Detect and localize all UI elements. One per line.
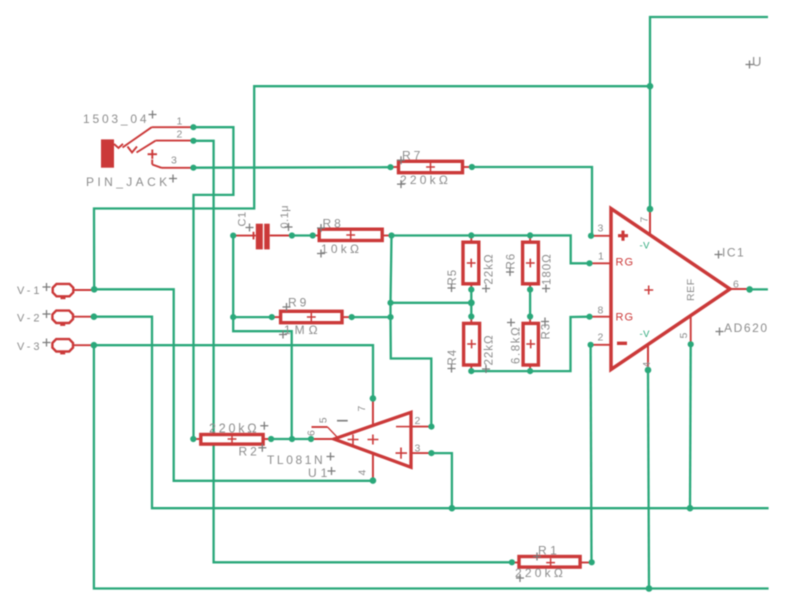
svg-text:REF: REF	[685, 278, 697, 301]
svg-text:22kΩ: 22kΩ	[484, 334, 496, 365]
svg-text:6: 6	[733, 279, 739, 291]
svg-text:2: 2	[177, 129, 183, 141]
svg-text:180Ω: 180Ω	[542, 253, 554, 285]
svg-text:TL081N: TL081N	[267, 453, 325, 467]
svg-text:U1: U1	[308, 466, 331, 480]
svg-text:-V: -V	[640, 241, 651, 252]
svg-text:R3: R3	[541, 323, 553, 340]
svg-text:4: 4	[641, 362, 653, 368]
svg-text:3: 3	[171, 155, 177, 167]
svg-text:3: 3	[415, 442, 421, 454]
svg-text:10kΩ: 10kΩ	[321, 242, 362, 256]
svg-text:R6: R6	[506, 253, 518, 270]
svg-text:V-2: V-2	[17, 313, 43, 325]
svg-text:R4: R4	[447, 349, 459, 366]
svg-text:V-1: V-1	[17, 285, 43, 297]
svg-text:V-3: V-3	[17, 341, 43, 353]
svg-text:AD620: AD620	[724, 321, 769, 335]
svg-text:RG: RG	[616, 256, 635, 268]
svg-text:4: 4	[357, 470, 369, 476]
svg-text:1MΩ: 1MΩ	[284, 323, 322, 337]
svg-text:7: 7	[356, 406, 368, 412]
svg-text:R1: R1	[538, 544, 560, 558]
svg-text:7: 7	[639, 217, 651, 223]
svg-text:R8: R8	[323, 217, 344, 231]
svg-text:U: U	[752, 54, 761, 69]
svg-text:C1: C1	[237, 211, 249, 226]
svg-text:R9: R9	[288, 296, 309, 310]
svg-text:PIN_JACK: PIN_JACK	[86, 175, 171, 189]
svg-text:22kΩ: 22kΩ	[484, 253, 496, 284]
svg-text:2: 2	[415, 415, 421, 427]
svg-text:-V: -V	[640, 329, 651, 340]
svg-text:6.8kΩ: 6.8kΩ	[511, 326, 523, 364]
svg-text:220kΩ: 220kΩ	[400, 173, 451, 187]
svg-text:5: 5	[678, 333, 690, 339]
svg-text:IC1: IC1	[722, 246, 745, 260]
svg-text:1503_04: 1503_04	[83, 112, 149, 126]
svg-text:R5: R5	[447, 269, 459, 286]
svg-text:R2: R2	[239, 445, 260, 459]
svg-text:8: 8	[598, 305, 604, 317]
svg-text:1: 1	[177, 116, 183, 128]
svg-text:1: 1	[598, 251, 604, 263]
svg-text:5: 5	[318, 417, 330, 423]
svg-text:3: 3	[598, 223, 604, 235]
svg-text:6: 6	[306, 430, 318, 436]
svg-text:220kΩ: 220kΩ	[209, 422, 259, 436]
svg-text:2: 2	[598, 332, 604, 344]
svg-text:R7: R7	[402, 149, 423, 163]
svg-text:0.1μ: 0.1μ	[279, 205, 291, 229]
svg-text:RG: RG	[616, 312, 635, 324]
